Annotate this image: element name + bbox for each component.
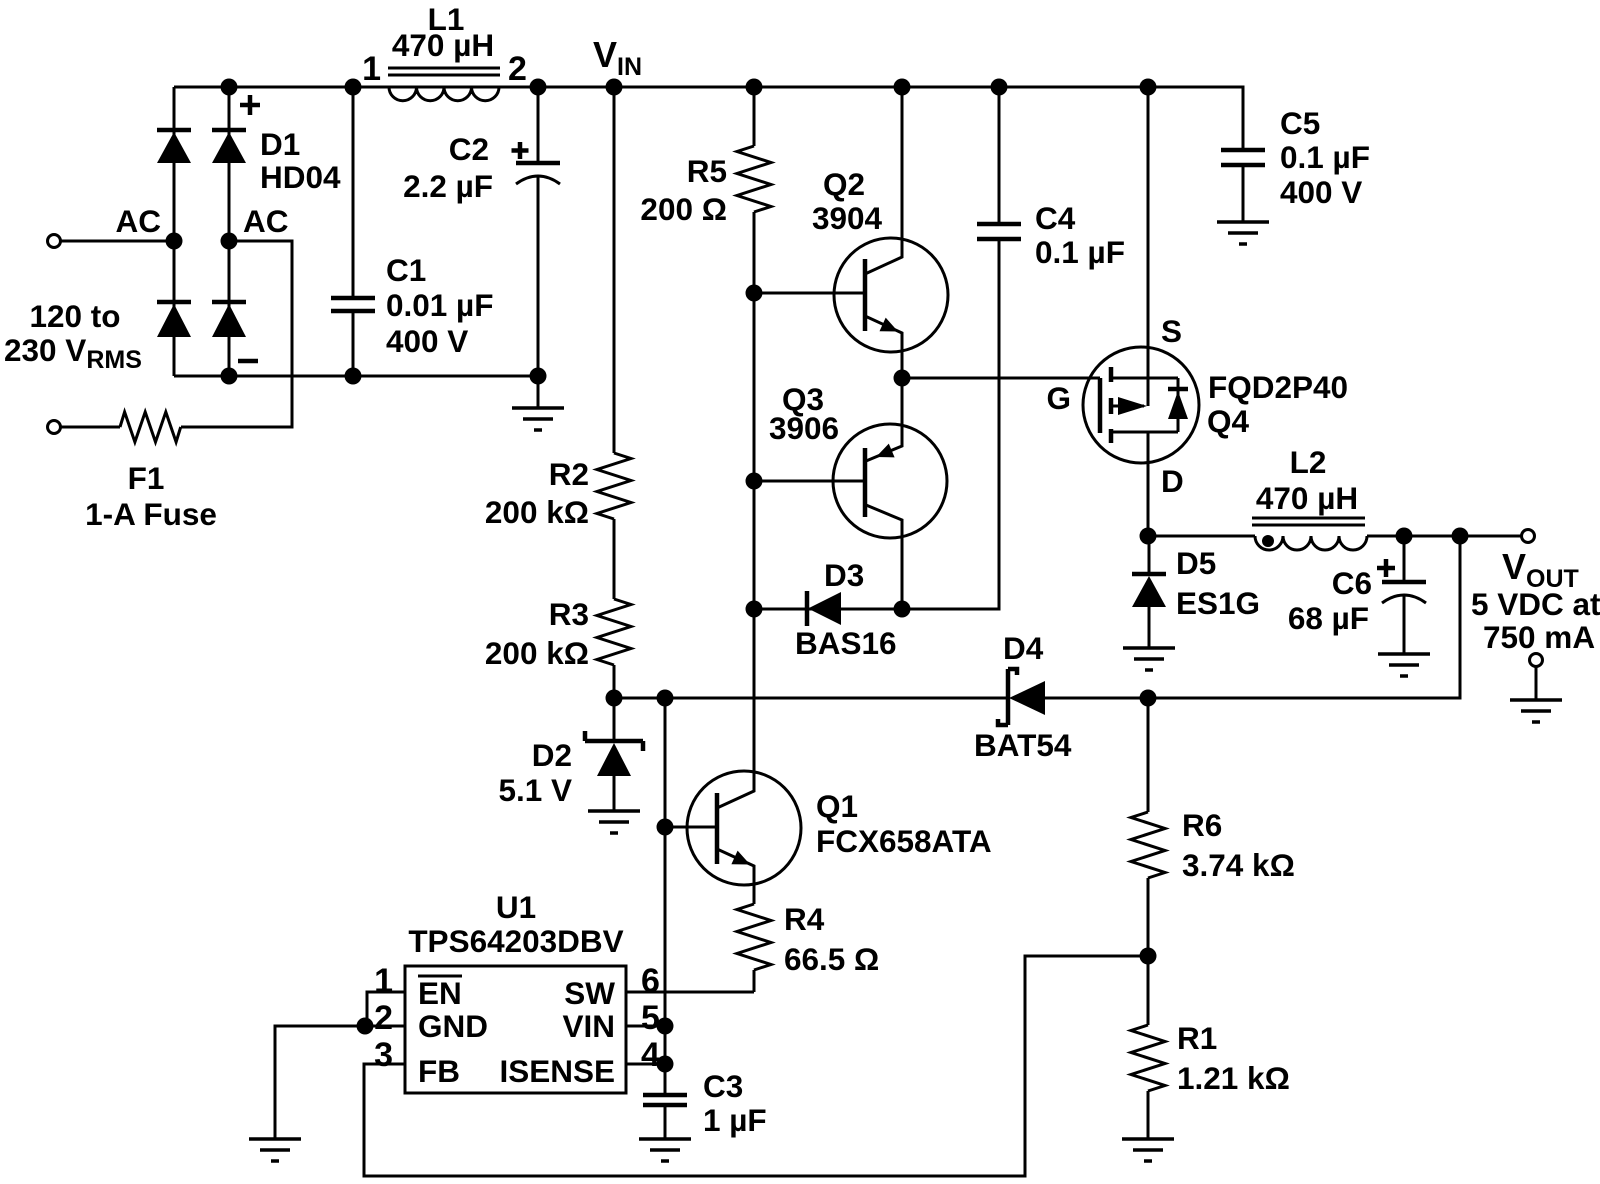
wire Q2 base node to Q3 base node [753, 293, 756, 481]
svg-text:200 kΩ: 200 kΩ [485, 494, 589, 530]
capacitor C6 [1403, 536, 1406, 654]
node Q2 collector [894, 79, 911, 96]
node D3 left [746, 601, 763, 618]
node C6 top [1396, 528, 1413, 545]
wire R1 to ground [1147, 1091, 1150, 1139]
node AC right [221, 233, 238, 250]
terminal VOUT [1522, 530, 1535, 543]
wire R6 to R1 [1147, 878, 1150, 956]
svg-text:F1: F1 [128, 460, 165, 496]
wire AC2 to fuse [181, 241, 292, 427]
wire bridge right column [228, 87, 231, 376]
svg-text:C5: C5 [1280, 105, 1320, 141]
controller section [249, 609, 992, 1161]
svg-text:2.2 µF: 2.2 µF [403, 168, 493, 204]
node C4 top [991, 79, 1008, 96]
node Q4 source [1140, 79, 1157, 96]
svg-text:470 µH: 470 µH [392, 27, 494, 63]
svg-text:D1: D1 [260, 126, 300, 162]
svg-text:BAS16: BAS16 [795, 625, 897, 661]
svg-text:3.74 kΩ: 3.74 kΩ [1182, 847, 1295, 883]
wire VOUT ground lead [1535, 667, 1538, 701]
node C2 bottom [530, 368, 547, 385]
node VIN [606, 79, 623, 96]
node VIN pin [657, 1018, 674, 1035]
fuse F1 [120, 412, 181, 442]
node AC left [166, 233, 183, 250]
svg-text:470 µH: 470 µH [1256, 480, 1358, 516]
diode D1c bridge bottom-left [157, 300, 191, 305]
resistor R5 [737, 146, 771, 212]
svg-text:1.21 kΩ: 1.21 kΩ [1177, 1060, 1290, 1096]
node EN GND junction [357, 1018, 374, 1035]
svg-text:1: 1 [362, 50, 381, 88]
wire Q2 base [754, 292, 865, 295]
resistor R2 [597, 453, 631, 519]
svg-text:EN: EN [418, 975, 462, 1011]
wire top rail VIN [174, 87, 1243, 150]
svg-text:1-A Fuse: 1-A Fuse [85, 496, 217, 532]
svg-text:HD04: HD04 [260, 159, 341, 195]
node Q4 drain [1140, 528, 1157, 545]
svg-text:FQD2P40: FQD2P40 [1208, 369, 1348, 405]
svg-text:D5: D5 [1176, 545, 1216, 581]
svg-text:5 VDC at: 5 VDC at [1471, 586, 1600, 622]
svg-text:6: 6 [641, 962, 660, 1000]
svg-text:R6: R6 [1182, 807, 1222, 843]
svg-text:C4: C4 [1035, 200, 1076, 236]
svg-text:L2: L2 [1290, 444, 1327, 480]
resistor R1 [1131, 1025, 1165, 1091]
wire R5 to Q2 base node [753, 212, 756, 293]
wire SW row [626, 991, 754, 994]
svg-text:1 µF: 1 µF [703, 1102, 767, 1138]
diode D1b bridge top-right [212, 128, 246, 133]
wire R3 to feedback node [613, 665, 616, 698]
node R6 R1 FB [1140, 948, 1157, 965]
inductor L1 [389, 87, 499, 101]
zener diode D2 [613, 698, 616, 811]
svg-text:0.01 µF: 0.01 µF [386, 287, 493, 323]
wire D3 row to C4 [754, 239, 999, 609]
diode D1a bridge top-left [157, 128, 191, 133]
svg-text:FB: FB [418, 1053, 460, 1089]
ground U1 GND [249, 1139, 301, 1161]
ground C3 [639, 1139, 691, 1161]
svg-text:R2: R2 [549, 456, 589, 492]
svg-text:750 mA: 750 mA [1483, 619, 1595, 655]
ground D5 [1123, 648, 1175, 670]
svg-text:0.1 µF: 0.1 µF [1035, 234, 1125, 270]
svg-text:VIN: VIN [562, 1008, 615, 1044]
IC U1 TPS64203DBV [405, 966, 626, 1093]
ground R1 [1122, 1139, 1174, 1161]
wire L2 to VOUT [1367, 535, 1522, 538]
transistor Q3 [833, 424, 947, 538]
wire GND row to ground [275, 1026, 405, 1139]
diode D3 [805, 591, 810, 626]
svg-text:0.1 µF: 0.1 µF [1280, 139, 1370, 175]
svg-text:120 to: 120 to [29, 298, 120, 334]
node L1-2 C2 top [530, 79, 547, 96]
svg-text:Q1: Q1 [816, 788, 858, 824]
wire feedback row [614, 536, 1460, 698]
node D3 right Q3 collector [894, 601, 911, 618]
terminal AC input 1 [48, 235, 61, 248]
svg-text:400 V: 400 V [1280, 174, 1362, 210]
svg-text:D2: D2 [532, 737, 572, 773]
terminal fuse input [48, 421, 61, 434]
svg-text:Q4: Q4 [1207, 403, 1250, 439]
wire R6 lead [1147, 698, 1150, 812]
svg-text:R4: R4 [784, 901, 825, 937]
svg-text:3904: 3904 [812, 200, 883, 236]
node Q3 base [746, 473, 763, 490]
AC input stage [4, 1, 1243, 532]
node bridge plus [221, 79, 238, 96]
svg-text:3906: 3906 [769, 410, 839, 446]
capacitor C5 [1242, 165, 1245, 222]
wire R5 column top [753, 87, 756, 146]
capacitor C2 [537, 87, 540, 376]
svg-text:200 Ω: 200 Ω [640, 191, 727, 227]
svg-text:Q2: Q2 [823, 166, 865, 202]
svg-text:R3: R3 [549, 596, 589, 632]
svg-text:C6: C6 [1332, 565, 1372, 601]
node feedback left [606, 690, 623, 707]
inductor L2 [1255, 536, 1367, 550]
wire AC1 to bridge [61, 240, 174, 243]
wire Q3 base [754, 480, 865, 483]
node bridge minus [221, 368, 238, 385]
svg-text:3: 3 [374, 1036, 393, 1074]
diode D5 [1148, 536, 1151, 648]
svg-text:4: 4 [641, 1036, 660, 1074]
transistor Q1 FCX658ATA [687, 771, 801, 885]
mosfet Q4 FQD2P40 [1083, 347, 1199, 463]
svg-text:C3: C3 [703, 1068, 743, 1104]
node Q1 base [657, 819, 674, 836]
svg-text:2: 2 [508, 50, 527, 88]
wire FB net [364, 956, 1148, 1176]
resistor R3 [597, 599, 631, 665]
svg-text:BAT54: BAT54 [974, 727, 1072, 763]
wire R1 lead [1147, 956, 1150, 1025]
terminal VOUT ground [1530, 654, 1543, 667]
diode D1d bridge bottom-right [212, 300, 246, 305]
svg-text:FCX658ATA: FCX658ATA [816, 823, 992, 859]
wire VIN column upper [613, 87, 616, 453]
svg-text:C1: C1 [386, 252, 426, 288]
ground D2 [588, 811, 640, 833]
wire VIN stub [626, 1025, 665, 1028]
svg-text:TPS64203DBV: TPS64203DBV [408, 923, 623, 959]
capacitor C1 [352, 87, 355, 376]
wire EN stub [367, 992, 405, 1026]
svg-text:D4: D4 [1003, 630, 1044, 666]
svg-text:ES1G: ES1G [1176, 585, 1260, 621]
wire bridge left column [173, 87, 176, 376]
node ISENSE pin [657, 1056, 674, 1073]
wire ISENSE stub [626, 1063, 665, 1066]
ground C5 [1217, 222, 1269, 244]
wire fuse lead [61, 426, 120, 429]
node VOUT riser [1452, 528, 1469, 545]
middle section [485, 79, 1370, 834]
capacitor C4 [998, 87, 1001, 224]
svg-text:U1: U1 [496, 889, 536, 925]
svg-text:68 µF: 68 µF [1288, 600, 1369, 636]
node Q2 emitter Q3 emitter [894, 370, 911, 387]
wire Q1 base column [664, 698, 667, 1064]
ground C2 [512, 408, 564, 430]
node R5 bottom [746, 285, 763, 302]
svg-text:AC: AC [243, 203, 289, 239]
svg-text:GND: GND [418, 1008, 488, 1044]
svg-text:5: 5 [641, 999, 660, 1037]
svg-text:400 V: 400 V [386, 323, 468, 359]
ground C6 [1378, 654, 1430, 676]
wire bottom rail [174, 375, 538, 378]
svg-text:C2: C2 [449, 131, 489, 167]
svg-text:5.1 V: 5.1 V [498, 772, 572, 808]
svg-text:ISENSE: ISENSE [499, 1053, 615, 1089]
svg-text:S: S [1161, 313, 1182, 349]
svg-text:1: 1 [374, 962, 393, 1000]
wire Q3 base node to D3 [753, 481, 756, 609]
node feedback Q1 base column [657, 690, 674, 707]
node R6 top [1140, 690, 1157, 707]
svg-text:66.5 Ω: 66.5 Ω [784, 941, 879, 977]
wire R2 to R3 [613, 519, 616, 599]
svg-text:G: G [1046, 380, 1071, 416]
node C1 top [345, 79, 362, 96]
wire drain to L2 [1148, 535, 1255, 538]
node C1 bottom [345, 368, 362, 385]
svg-text:R5: R5 [687, 153, 727, 189]
diode D4 BAT54 [998, 669, 1017, 725]
resistor R4 [737, 904, 771, 970]
svg-text:2: 2 [374, 999, 393, 1037]
wire R4 to SW [753, 970, 756, 992]
ground VOUT [1510, 700, 1562, 722]
svg-text:R1: R1 [1177, 1020, 1217, 1056]
svg-text:AC: AC [116, 203, 162, 239]
output section [364, 79, 1600, 1177]
wire Q1 base [665, 826, 717, 829]
svg-text:D: D [1161, 463, 1184, 499]
wire C2 ground stub [537, 376, 540, 408]
resistor R6 [1131, 812, 1165, 878]
wire gate row [902, 377, 1100, 380]
node R5 top [746, 79, 763, 96]
transistor Q2 [834, 238, 948, 352]
svg-text:200 kΩ: 200 kΩ [485, 635, 589, 671]
svg-text:SW: SW [564, 975, 615, 1011]
svg-text:D3: D3 [824, 557, 864, 593]
capacitor C3 [664, 1064, 667, 1139]
